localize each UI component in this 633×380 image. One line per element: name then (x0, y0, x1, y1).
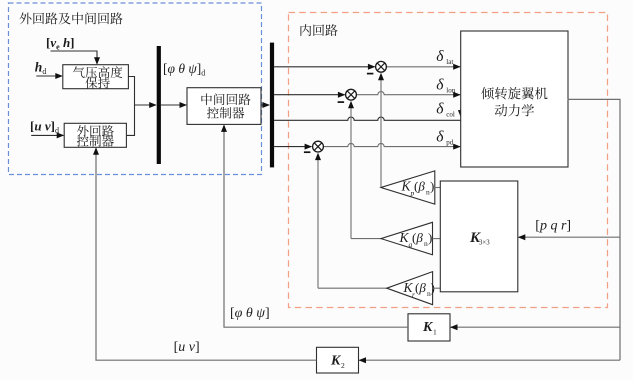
svg-text:): ) (430, 179, 434, 194)
svg-text:(β: (β (414, 179, 425, 194)
inner loop dashed boundary (289, 13, 608, 308)
feedback stem into junction 2 (351, 238, 381, 240)
wire delta_lat line (to summing junction 1) (274, 66, 375, 68)
wire outer-loop output (126, 105, 134, 135)
summing junction 3 (313, 141, 324, 152)
mux bar 2 (270, 43, 274, 168)
svg-text:[u v]d: [u v]d (30, 119, 59, 136)
outer/middle loop dashed boundary (9, 3, 262, 175)
feedback stem into junction 3 (318, 287, 387, 289)
svg-text:): ) (431, 280, 435, 295)
svg-text:δ: δ (436, 76, 444, 93)
wire controller to mux bar2 (261, 104, 269, 106)
wire h_d into altitude-hold box (36, 75, 62, 77)
block: 中间回路控制器 (middle-loop controller) (187, 88, 261, 125)
wire dynamics output to feedback bus (568, 99, 621, 360)
gain K_r(beta_n) (387, 272, 433, 305)
svg-text:(β: (β (412, 230, 423, 245)
wire delta_ped after junction (hops) into dynamics (324, 143, 460, 146)
svg-text:(β: (β (415, 280, 426, 295)
wire [p q r] into K_3x3 (519, 236, 620, 238)
svg-text:[p q r]: [p q r] (535, 219, 571, 234)
summing junction 1 (376, 61, 387, 72)
block K_3x3 (440, 181, 518, 292)
feedback stem into junction 1 (380, 78, 382, 187)
wire K_p out (435, 187, 441, 189)
svg-text:lat: lat (446, 58, 453, 66)
wire merge to mux bar1 (135, 104, 157, 106)
svg-text:): ) (428, 230, 432, 245)
svg-text:1: 1 (433, 328, 437, 337)
wire K_q out (433, 238, 441, 240)
label: 外回路及中间回路 (20, 12, 32, 24)
wire [u v]_d into outer-loop controller (31, 134, 63, 136)
svg-text:δ: δ (436, 101, 444, 118)
wire delta_lon line (to summing junction 2) (274, 94, 345, 96)
wire delta_ped line (to summing junction 3) (274, 146, 311, 148)
wire bus into K_1 (451, 326, 620, 328)
svg-text:[φ θ ψ]d: [φ θ ψ]d (163, 61, 205, 78)
wire bar1 to middle-loop controller (161, 104, 186, 106)
svg-text:[u v]: [u v] (174, 340, 200, 355)
svg-text:lon: lon (446, 86, 455, 94)
wire altitude-hold output (128, 77, 134, 106)
label: 内回路 (300, 24, 311, 36)
wire [ve h] to altitude-hold box top (51, 51, 98, 64)
mux bar 1 (157, 46, 161, 164)
block: 气压高度保持 (barometric altitude hold) (63, 65, 129, 89)
svg-text:δ: δ (436, 128, 444, 145)
block: 倾转旋翼机动力学 (tiltrotor dynamics) (461, 31, 568, 167)
gain K_q(beta_n) (381, 222, 433, 255)
wire delta_lat after junction into dynamics (387, 66, 460, 68)
block: 外回路控制器 (outer-loop controller) (64, 123, 126, 147)
svg-text:δ: δ (436, 48, 444, 65)
svg-text:col: col (446, 111, 455, 119)
svg-text:3×3: 3×3 (479, 240, 490, 247)
wire bus into K_2 (359, 359, 620, 361)
summing junction 2 (346, 89, 357, 100)
arrow on dynamics edge for delta_col (460, 108, 462, 112)
gain K_p(beta_n) (381, 171, 435, 204)
wire delta_col line (hops over stems) into dynamics (274, 117, 461, 120)
wire K_r out (433, 287, 441, 289)
wire K_2 output to outer-loop controller (96, 148, 317, 360)
svg-text:[φ θ ψ]: [φ θ ψ] (230, 306, 270, 321)
svg-text:pd: pd (446, 138, 454, 146)
svg-text:[ve h]: [ve h] (46, 35, 75, 52)
svg-text:2: 2 (341, 361, 345, 370)
block K_1 (408, 314, 450, 341)
wire delta_lon after junction (hop over stem1) into dynamics (357, 91, 460, 94)
block K_2 (317, 347, 359, 373)
wire K_1 output to middle-loop controller (224, 126, 408, 328)
